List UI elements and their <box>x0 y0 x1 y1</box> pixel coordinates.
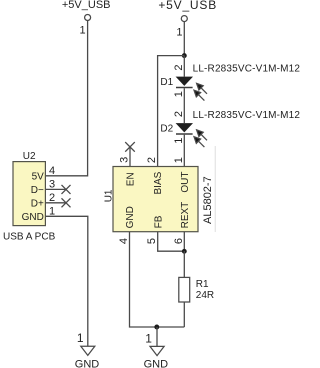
svg-text:1: 1 <box>79 24 85 36</box>
LED D1 emission arrows <box>194 83 207 100</box>
no-connect X on U2 pin 3 <box>62 185 71 194</box>
ground symbol (right) <box>150 346 164 355</box>
svg-text:BIAS: BIAS <box>153 171 164 194</box>
junction at bottom ground rail <box>154 325 159 330</box>
wire U2 GND pin to ground <box>45 216 87 346</box>
svg-text:4: 4 <box>118 238 130 244</box>
svg-text:2: 2 <box>173 111 185 117</box>
svg-text:1: 1 <box>173 138 185 144</box>
svg-text:AL5802-7: AL5802-7 <box>202 176 214 224</box>
no-connect X on U2 pin 2 <box>62 198 71 207</box>
svg-text:4: 4 <box>49 165 55 177</box>
svg-text:D−: D− <box>31 185 44 196</box>
power flag +5V_USB (left) <box>62 0 111 36</box>
LED D2 <box>176 123 193 134</box>
svg-text:3: 3 <box>119 157 131 163</box>
junction at +5V node <box>182 53 187 58</box>
svg-text:D1: D1 <box>160 77 173 88</box>
wire U1 GND pin to bottom rail <box>130 232 185 327</box>
connector U2 body <box>13 162 45 226</box>
LED D2 emission arrows <box>194 130 207 147</box>
svg-text:2: 2 <box>173 65 185 71</box>
op-amp U1 body <box>113 167 198 232</box>
svg-text:5V: 5V <box>32 171 45 182</box>
svg-text:1: 1 <box>145 331 152 345</box>
svg-text:GND: GND <box>75 358 100 368</box>
no-connect X on U1 pin 3 <box>125 142 135 152</box>
svg-text:R1: R1 <box>196 279 209 290</box>
svg-text:USB A PCB: USB A PCB <box>3 232 56 243</box>
junction at REXT node <box>182 249 187 254</box>
svg-text:1: 1 <box>77 331 84 345</box>
svg-text:EN: EN <box>126 172 137 186</box>
svg-text:GND: GND <box>22 212 44 223</box>
resistor R1 <box>179 277 190 302</box>
svg-text:LL-R2835VC-V1M-M12: LL-R2835VC-V1M-M12 <box>193 64 300 75</box>
svg-text:U1: U1 <box>104 189 115 202</box>
wire R1 to bottom rail <box>183 302 185 327</box>
svg-text:FB: FB <box>153 215 164 228</box>
svg-text:+5V_USB: +5V_USB <box>158 0 217 12</box>
svg-text:1: 1 <box>173 91 185 97</box>
svg-text:2: 2 <box>146 157 158 163</box>
svg-text:LL-R2835VC-V1M-M12: LL-R2835VC-V1M-M12 <box>193 110 300 121</box>
svg-text:GND: GND <box>125 206 136 228</box>
wire U1 EN pin stub <box>129 147 131 167</box>
svg-text:+5V_USB: +5V_USB <box>62 0 111 11</box>
wire +5V_USB left drop to U2 pin 4 <box>45 21 87 176</box>
svg-text:5: 5 <box>146 238 158 244</box>
svg-text:24R: 24R <box>196 290 214 301</box>
faint printing artifact line <box>214 146 216 232</box>
wire D1 cathode to D2 anode <box>183 88 185 123</box>
power flag +5V_USB (right) <box>158 0 217 38</box>
LED D1 <box>176 77 193 88</box>
svg-text:REXT: REXT <box>180 202 191 229</box>
wire U2 pin 3 stub <box>45 188 66 190</box>
wire U2 pin 2 stub <box>45 202 66 204</box>
wire U1 REXT pin stub <box>183 232 185 251</box>
svg-text:1: 1 <box>176 26 182 38</box>
wire REXT node to R1 <box>183 251 185 277</box>
wire D2 cathode to U1 OUT <box>183 135 185 167</box>
svg-text:D2: D2 <box>160 124 173 135</box>
wire +5V to D1 anode <box>183 56 185 77</box>
svg-text:GND: GND <box>144 358 169 368</box>
svg-text:OUT: OUT <box>180 171 191 192</box>
ground symbol (left) <box>81 346 95 355</box>
svg-text:6: 6 <box>173 238 185 244</box>
svg-text:U2: U2 <box>23 151 36 162</box>
wire +5V_USB right drop <box>183 22 185 56</box>
wire ground rail to ground symbol <box>156 327 158 346</box>
svg-text:1: 1 <box>173 157 185 163</box>
svg-text:D+: D+ <box>31 198 44 209</box>
wire U1 FB pin to REXT node <box>158 232 185 252</box>
wire +5V to BIAS pin <box>158 56 185 167</box>
